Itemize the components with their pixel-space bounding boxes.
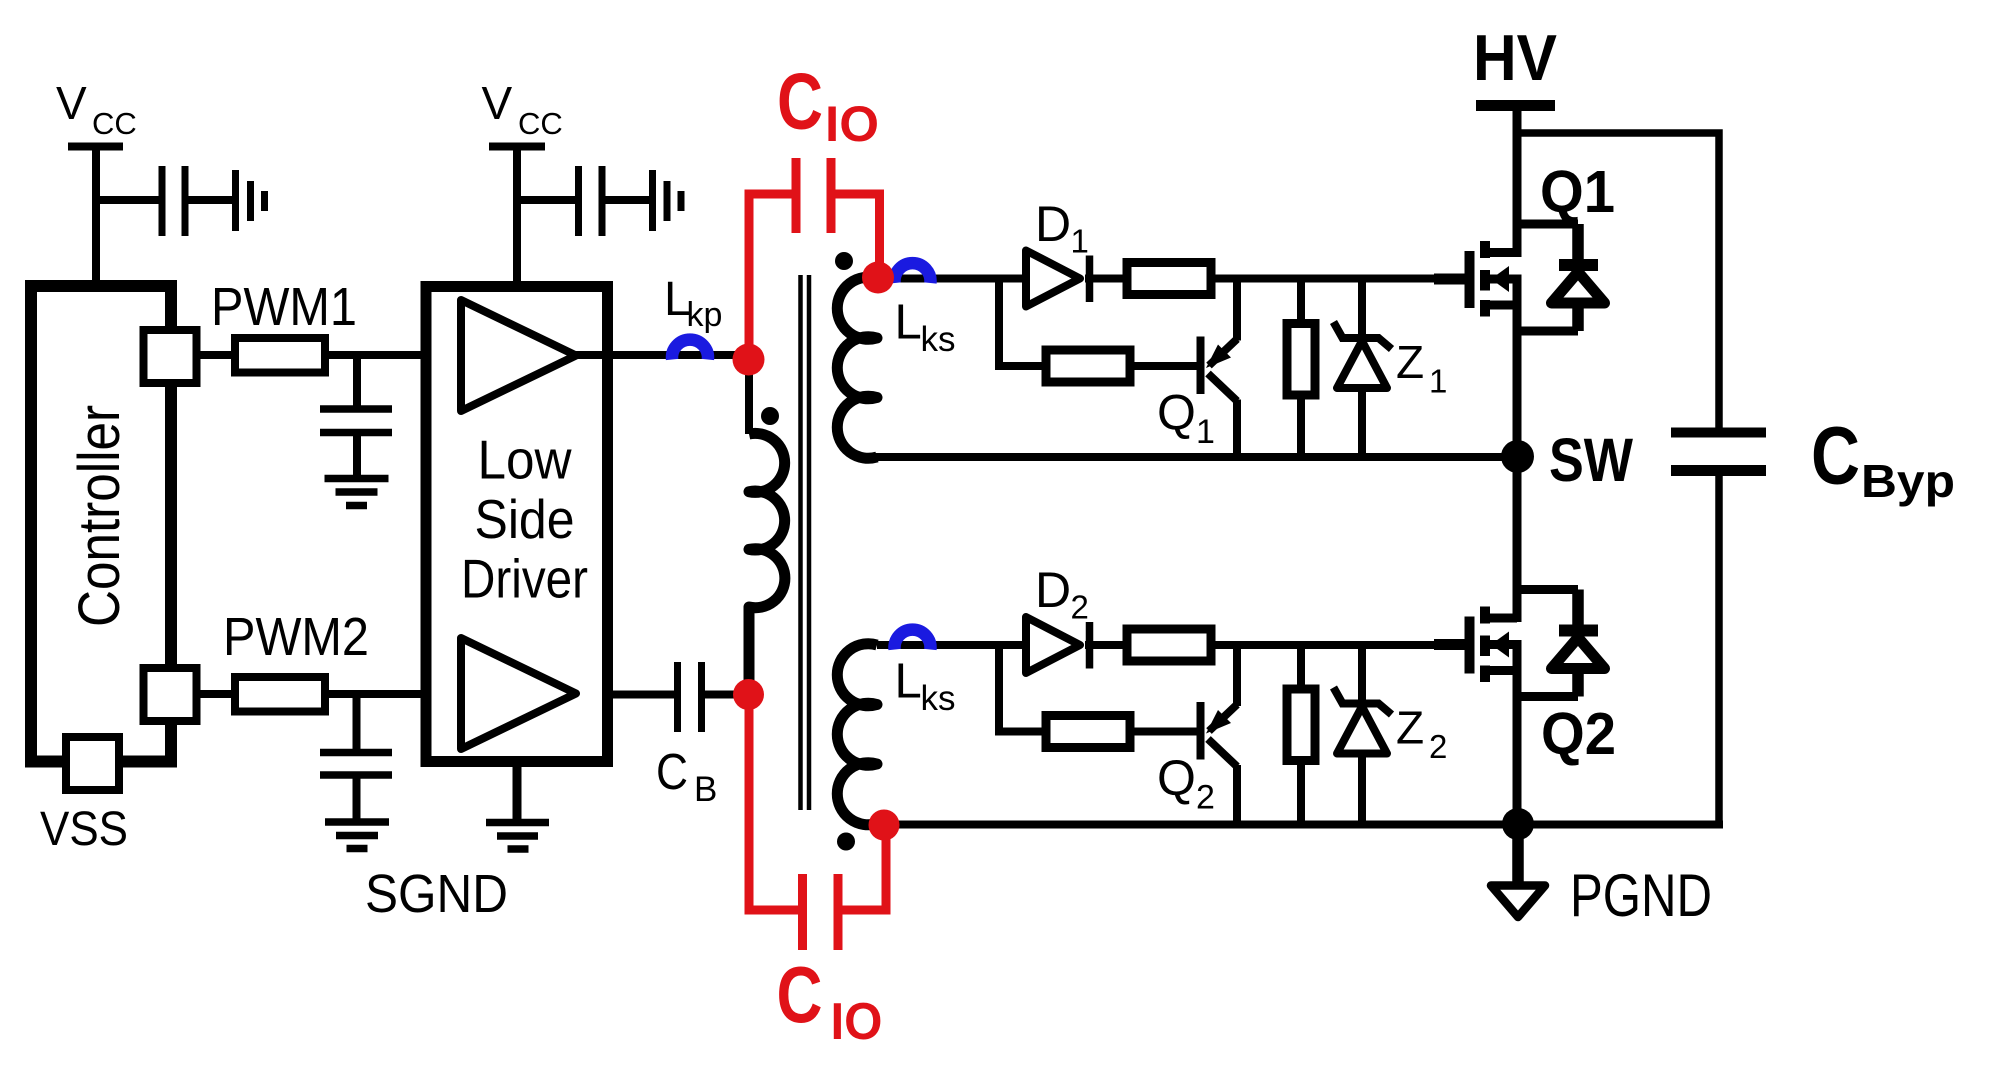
- label CByp: [1811, 411, 1955, 508]
- transformer core: [801, 275, 810, 810]
- wire gate node to zener Z1: [1358, 279, 1366, 339]
- buffer B (bottom driver stage): [461, 638, 576, 749]
- node PGND junction dot: [1502, 808, 1534, 840]
- transistor Q2 (PNP turn-off): [1201, 645, 1238, 825]
- low side driver U2 box: [426, 287, 608, 762]
- wire gate resistor to Q1 gate: [1211, 275, 1465, 283]
- svg-text:C: C: [1811, 411, 1860, 502]
- ground (PWM2 filter): [325, 822, 389, 849]
- svg-text:V: V: [482, 77, 513, 129]
- svg-text:Q2: Q2: [1541, 701, 1616, 767]
- wire Q1 source to SW to Q2 drain: [1513, 275, 1522, 623]
- body diode (Q2): [1517, 590, 1605, 697]
- node dot (secondary top / CIO junction, red): [862, 262, 894, 294]
- node dot (CB / CIO junction, red): [733, 679, 764, 710]
- svg-text:SW: SW: [1549, 426, 1633, 494]
- svg-text:kp: kp: [687, 296, 723, 334]
- node VCC (controller supply): [56, 77, 137, 147]
- capacitor (PWM1 filter): [320, 409, 392, 475]
- wire VCC to driver: [513, 150, 521, 287]
- svg-text:IO: IO: [831, 993, 883, 1051]
- capacitor CIO (top, red interwinding): [749, 158, 880, 352]
- inductor Lks (blue leakage arc, top): [894, 263, 930, 283]
- wire PWM2 resistor to driver input: [329, 690, 461, 698]
- svg-text:B: B: [694, 770, 717, 809]
- capacitor (VCC decoupling, driver): [579, 166, 603, 236]
- wire cap to ground: [188, 196, 233, 204]
- svg-text:L: L: [895, 655, 922, 709]
- svg-text:VSS: VSS: [40, 803, 128, 856]
- svg-text:Q1: Q1: [1540, 159, 1615, 225]
- resistor (gate series, bottom): [1127, 629, 1211, 661]
- pin VSS (controller): [66, 737, 119, 790]
- svg-text:CC: CC: [92, 106, 137, 141]
- resistor (base drive, top): [1046, 350, 1130, 382]
- wire cap to ground: [605, 196, 649, 204]
- resistor (gate-source pulldown, bottom): [1287, 689, 1315, 761]
- wire HV to Q1 drain: [1513, 111, 1522, 257]
- ground (sideways, driver VCC): [653, 170, 682, 231]
- label D2: [1035, 562, 1089, 626]
- label Z1: [1396, 336, 1447, 400]
- label Z2: [1396, 702, 1447, 766]
- svg-text:Driver: Driver: [461, 548, 588, 610]
- buffer A (top driver stage): [461, 300, 576, 411]
- label Lks (top): [895, 296, 956, 360]
- zener Z2: [1334, 688, 1392, 825]
- svg-text:CC: CC: [518, 106, 563, 141]
- transformer T1 secondary winding (bottom): [837, 644, 877, 825]
- svg-text:V: V: [56, 77, 87, 129]
- capacitor CByp: [1671, 433, 1766, 825]
- svg-text:ks: ks: [921, 320, 956, 359]
- node VCC (driver supply): [482, 77, 563, 147]
- ground (PWM1 filter): [325, 479, 389, 506]
- label Lkp: [664, 273, 722, 334]
- wire gate node to zener Z2: [1358, 645, 1366, 704]
- wire Q2 source to PGND: [1513, 640, 1522, 825]
- svg-text:ks: ks: [921, 679, 956, 718]
- svg-text:Byp: Byp: [1861, 455, 1955, 507]
- node dot (Lkp / CIO junction, red): [733, 344, 765, 376]
- zener Z1: [1334, 322, 1392, 457]
- wire PWM2 pin to resistor: [196, 690, 235, 698]
- wire VCC to controller: [92, 150, 100, 286]
- wire branch to turn-off path (bottom): [999, 645, 1046, 732]
- svg-text:2: 2: [1429, 728, 1447, 765]
- node dot (secondary bottom / CIO junction, red): [869, 810, 900, 841]
- wire base resistor to Q1 base: [1130, 362, 1197, 370]
- wire gate node to pulldown resistor: [1297, 279, 1305, 324]
- ground SGND symbol: [486, 823, 549, 850]
- svg-text:IO: IO: [825, 96, 879, 152]
- resistor (PWM2 series): [235, 677, 325, 712]
- label CIO (bottom): [777, 950, 883, 1051]
- wire VCC to decoupling cap: [92, 196, 159, 204]
- pin PWM1 (controller): [144, 330, 197, 383]
- label CB: [656, 743, 717, 809]
- resistor (PWM1 series): [235, 338, 325, 373]
- svg-text:SGND: SGND: [365, 864, 508, 924]
- svg-text:Z: Z: [1396, 702, 1424, 754]
- wire SW rail (top network return): [874, 453, 1519, 461]
- wire PWM1 node to filter cap: [353, 355, 361, 406]
- mosfet Q2 (low side): [1434, 607, 1519, 683]
- wire secondary bottom to D2: [877, 641, 1026, 649]
- wire gate node to pulldown resistor (bottom): [1297, 645, 1305, 689]
- svg-text:PGND: PGND: [1570, 862, 1712, 929]
- svg-text:1: 1: [1196, 413, 1215, 451]
- svg-text:Q: Q: [1157, 385, 1196, 441]
- wire PGND rail (bottom network return): [877, 821, 1723, 829]
- resistor (gate series, top): [1127, 263, 1211, 295]
- wire driver to SGND: [513, 761, 522, 822]
- body diode (Q1): [1517, 224, 1605, 331]
- wire base resistor to Q2 base: [1130, 728, 1197, 736]
- svg-text:C: C: [656, 743, 688, 800]
- svg-text:Z: Z: [1396, 336, 1424, 388]
- wire PWM1 pin to resistor: [196, 351, 235, 359]
- svg-text:PWM2: PWM2: [223, 607, 369, 667]
- svg-text:C: C: [777, 57, 823, 146]
- transistor Q1 (PNP turn-off): [1201, 279, 1238, 458]
- svg-text:HV: HV: [1473, 21, 1557, 94]
- pin PWM2 (controller): [144, 668, 197, 721]
- phase dot (secondary bottom): [837, 833, 855, 851]
- svg-text:L: L: [895, 296, 922, 350]
- wire VCC to decoupling cap: [513, 196, 575, 204]
- transformer T1 secondary winding (top): [837, 277, 877, 458]
- svg-text:Low: Low: [478, 429, 572, 491]
- wire PWM1 resistor to driver input: [329, 351, 461, 359]
- diode D2: [1026, 617, 1090, 673]
- svg-text:Q: Q: [1157, 750, 1196, 806]
- transformer T1 primary winding: [749, 433, 785, 694]
- controller U1 box: [31, 286, 171, 762]
- inductor Lkp (blue leakage arc): [672, 340, 708, 360]
- svg-text:Controller: Controller: [67, 405, 132, 627]
- svg-text:1: 1: [1071, 223, 1089, 260]
- svg-text:1: 1: [1429, 363, 1447, 400]
- ground PGND symbol: [1491, 824, 1545, 917]
- node SW junction dot: [1501, 440, 1534, 473]
- wire branch to turn-off path (top): [999, 279, 1046, 367]
- svg-text:PWM1: PWM1: [211, 277, 357, 337]
- label Lks (bottom): [895, 655, 956, 719]
- label D1: [1035, 196, 1089, 260]
- label Q2 (BJT): [1157, 750, 1215, 817]
- inductor Lks (blue leakage arc, bottom): [895, 630, 931, 650]
- diode D1: [1026, 251, 1090, 307]
- capacitor CIO (bottom, red interwinding): [749, 700, 886, 950]
- phase dot (secondary top): [835, 252, 853, 270]
- capacitor (VCC decoupling, controller): [162, 166, 185, 236]
- wire gate resistor to Q2 gate: [1211, 641, 1465, 649]
- svg-text:2: 2: [1071, 589, 1089, 626]
- phase dot (primary): [761, 407, 779, 425]
- capacitor CB (dc-block): [607, 662, 750, 732]
- wire pulldown resistor to SW rail: [1297, 395, 1305, 457]
- mosfet Q1 (high side): [1434, 241, 1519, 317]
- wire PWM2 node to filter cap: [353, 694, 361, 749]
- wire D2 to gate resistor: [1085, 641, 1127, 649]
- resistor (base drive, bottom): [1046, 716, 1130, 748]
- label CIO (top): [777, 57, 879, 153]
- wire pulldown resistor to PGND rail: [1297, 761, 1305, 825]
- wire secondary top to D1: [878, 275, 1026, 283]
- svg-text:2: 2: [1196, 779, 1215, 817]
- svg-text:D: D: [1035, 562, 1071, 618]
- wire D1 to gate resistor: [1085, 275, 1127, 283]
- wire HV branch to CByp: [1513, 133, 1719, 428]
- label Q1 (BJT): [1157, 385, 1215, 452]
- svg-text:Side: Side: [475, 488, 575, 550]
- resistor (gate-source pulldown, top): [1287, 324, 1315, 396]
- capacitor (PWM2 filter): [320, 753, 392, 819]
- node HV: [1473, 21, 1557, 106]
- svg-text:D: D: [1035, 196, 1071, 252]
- ground (sideways, controller VCC): [236, 170, 265, 231]
- svg-text:C: C: [777, 950, 823, 1039]
- wire buffer A output to transformer primary: [576, 355, 749, 434]
